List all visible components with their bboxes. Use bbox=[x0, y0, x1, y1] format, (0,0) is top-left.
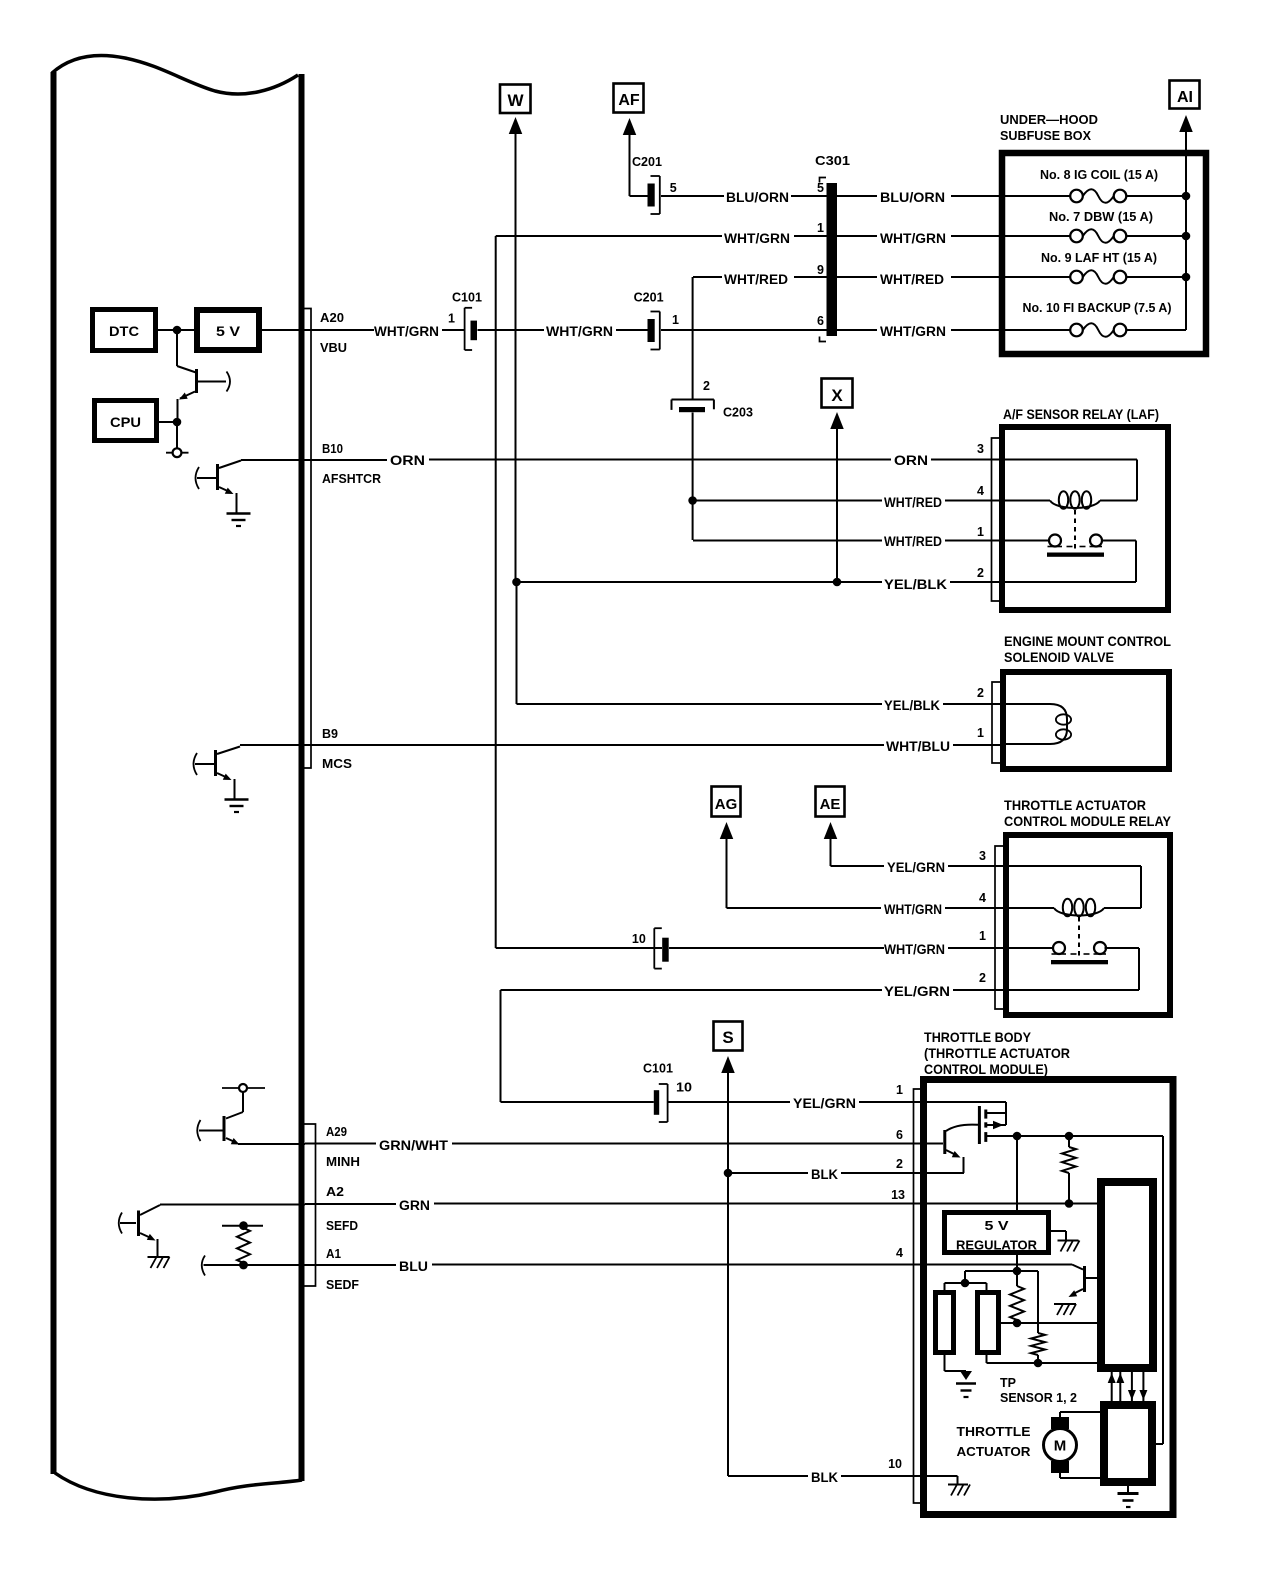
resistor R2 (gate pull) bbox=[1068, 1136, 1070, 1147]
wire WHT/RED row pin9 (to C301 and fuse box) bbox=[693, 276, 722, 278]
wire A1 internal with bracket bbox=[202, 1256, 205, 1276]
node source rail 2 bbox=[1065, 1132, 1074, 1141]
connector arrow box X bbox=[822, 379, 853, 408]
svg-text:ENGINE MOUNT CONTROL: ENGINE MOUNT CONTROL bbox=[1004, 633, 1171, 649]
throttle relay plunger dashed link bbox=[1078, 917, 1080, 957]
connector arrow box AG bbox=[712, 787, 741, 817]
wire 5V regulator feed bbox=[1016, 1136, 1018, 1210]
svg-text:5 V: 5 V bbox=[216, 323, 241, 339]
wire WHT/GRN row pin1 (vertical feed to C301 and fuse box) bbox=[496, 235, 722, 237]
engine mount solenoid box bbox=[1003, 672, 1169, 769]
svg-text:6: 6 bbox=[896, 1128, 903, 1142]
connector arrow box AE bbox=[816, 787, 845, 817]
resistor R1 on SEDF line bbox=[222, 1225, 263, 1227]
svg-text:DTC: DTC bbox=[109, 323, 139, 339]
svg-text:MCS: MCS bbox=[322, 757, 352, 771]
wire YEL/GRN row (AE to throttle relay pin3) bbox=[831, 865, 885, 867]
svg-text:C201: C201 bbox=[634, 291, 664, 305]
svg-text:S: S bbox=[722, 1028, 733, 1047]
svg-text:1: 1 bbox=[977, 726, 984, 740]
svg-text:4: 4 bbox=[977, 484, 984, 498]
wire WHT/RED row (to relay pin1) bbox=[693, 540, 882, 542]
svg-text:10: 10 bbox=[888, 1457, 902, 1471]
svg-text:WHT/GRN: WHT/GRN bbox=[880, 324, 946, 339]
wire motor bottom to drive block bbox=[1059, 1473, 1061, 1478]
svg-text:CPU: CPU bbox=[110, 414, 141, 430]
svg-text:WHT/GRN: WHT/GRN bbox=[884, 942, 945, 957]
wire internal 5V rail vertical bbox=[176, 330, 178, 366]
wire CPU to rail bbox=[159, 421, 177, 423]
fuse F2 No.7 DBW bbox=[1005, 235, 1070, 237]
5V REGULATOR box bbox=[945, 1213, 1049, 1253]
svg-text:2: 2 bbox=[979, 971, 986, 985]
wire BLU/ORN row (C201 to C301 to fuse box) bbox=[661, 195, 724, 197]
ECM/PCM module outline (torn-edge box) bbox=[51, 72, 57, 1474]
svg-text:YEL/BLK: YEL/BLK bbox=[884, 698, 940, 713]
ECM connector bracket (A20/B10/B9) bbox=[303, 309, 311, 769]
svg-text:13: 13 bbox=[891, 1188, 905, 1202]
wire motor top to drive block bbox=[1059, 1412, 1061, 1417]
svg-text:A2: A2 bbox=[326, 1185, 344, 1199]
svg-text:No. 10 FI BACKUP (7.5 A): No. 10 FI BACKUP (7.5 A) bbox=[1023, 301, 1172, 315]
wire ORN row (B10 to A/F sensor relay pin3) bbox=[429, 459, 891, 461]
wire AE vertical bbox=[830, 838, 832, 866]
CPU box bbox=[95, 401, 157, 441]
connector arrow box AF bbox=[614, 84, 644, 113]
wire YEL/BLK row (to engine mount solenoid pin2) bbox=[517, 703, 883, 705]
transistor Q4 (MINH driver) bbox=[222, 1087, 265, 1089]
svg-text:A20: A20 bbox=[320, 311, 344, 325]
svg-text:C203: C203 bbox=[723, 406, 753, 420]
connector arrow box W bbox=[500, 85, 531, 114]
wire YEL/GRN row (C101 to throttle body pin1) bbox=[501, 1101, 654, 1103]
wire GRN/WHT row (A28 to throttle body pin6) bbox=[305, 1143, 376, 1145]
amplifier block (tall) bbox=[1101, 1182, 1153, 1368]
throttle relay contacts bbox=[1053, 942, 1065, 954]
throttle relay connector bracket bbox=[995, 846, 1003, 1009]
svg-text:ORN: ORN bbox=[894, 453, 928, 468]
wire AG vertical bbox=[726, 838, 728, 908]
svg-text:WHT/RED: WHT/RED bbox=[724, 272, 788, 287]
svg-text:M: M bbox=[1054, 1438, 1067, 1455]
wire DTC to 5V bbox=[158, 329, 194, 331]
ground below motor drive block bbox=[1127, 1486, 1129, 1493]
regulator ground bbox=[1049, 1230, 1066, 1232]
engine mount solenoid coil bbox=[1003, 704, 1067, 744]
svg-text:AE: AE bbox=[820, 796, 841, 813]
svg-text:BLU/ORN: BLU/ORN bbox=[726, 190, 789, 205]
throttle body pin10 internal ground bbox=[957, 1476, 959, 1484]
svg-text:5: 5 bbox=[817, 181, 824, 195]
wire regulator output to R4 bbox=[1017, 1270, 1038, 1272]
svg-text:A1: A1 bbox=[326, 1247, 341, 1261]
wire Q6 emitter to pin2 BLK bbox=[930, 1172, 964, 1174]
svg-text:CONTROL MODULE): CONTROL MODULE) bbox=[924, 1061, 1048, 1077]
svg-text:YEL/GRN: YEL/GRN bbox=[793, 1096, 856, 1111]
svg-text:SENSOR 1, 2: SENSOR 1, 2 bbox=[1000, 1390, 1077, 1405]
connector C201 pin 1 (A20 row) bbox=[648, 319, 655, 342]
node: CPU junction bbox=[173, 418, 182, 427]
throttle relay internal wiring top bbox=[1009, 865, 1141, 867]
svg-text:X: X bbox=[831, 386, 843, 405]
TP sensor ground bbox=[944, 1352, 946, 1371]
svg-text:1: 1 bbox=[817, 221, 824, 235]
throttle relay coil bbox=[1009, 907, 1054, 909]
svg-text:4: 4 bbox=[896, 1246, 903, 1260]
wire 5V box to ECM edge (A20) bbox=[262, 329, 374, 331]
A/F relay connector bracket bbox=[992, 438, 1000, 601]
svg-text:AI: AI bbox=[1177, 89, 1193, 106]
node: DTC/5V junction bbox=[173, 326, 182, 335]
TP sensor 2 element bbox=[978, 1293, 999, 1353]
transistor Q1 (VBU driver) bbox=[177, 366, 196, 373]
node R4 output bbox=[1034, 1359, 1043, 1368]
transistor Q7 (pin4 buffer) bbox=[1072, 1265, 1083, 1270]
A/F relay contacts bbox=[1049, 535, 1061, 547]
svg-text:2: 2 bbox=[977, 686, 984, 700]
DTC box bbox=[93, 310, 156, 351]
wire TP sensor 1 output row bbox=[1001, 1322, 1101, 1324]
wire BLK row (S vertical bottom to throttle body pin10) bbox=[728, 1475, 808, 1477]
connector C301 (bar) bbox=[827, 183, 838, 336]
wire YEL/BLK row (W/X verticals to relay pin2) bbox=[517, 581, 883, 583]
svg-text:ACTUATOR: ACTUATOR bbox=[957, 1444, 1032, 1459]
svg-text:THROTTLE: THROTTLE bbox=[957, 1424, 1031, 1439]
svg-text:3: 3 bbox=[977, 442, 984, 456]
wire BLU row (A1 to throttle body pin4) bbox=[305, 1264, 396, 1266]
svg-text:WHT/GRN: WHT/GRN bbox=[724, 231, 790, 246]
ground below Q2 bbox=[227, 512, 251, 515]
node source rail 1 bbox=[1013, 1132, 1022, 1141]
fuse F3 No.9 LAF HT bbox=[1005, 276, 1070, 278]
wire YEL/GRN row (throttle relay pin2 down to C101) bbox=[501, 989, 883, 991]
test point open circle bbox=[166, 452, 189, 454]
A/F relay coil bbox=[1005, 500, 1050, 502]
svg-text:THROTTLE BODY: THROTTLE BODY bbox=[924, 1029, 1032, 1045]
svg-text:SUBFUSE BOX: SUBFUSE BOX bbox=[1000, 128, 1091, 143]
transistor Q2 (AFSHTCR driver) bbox=[196, 467, 200, 489]
svg-text:UNDER—HOOD: UNDER—HOOD bbox=[1000, 112, 1098, 127]
node YEL/BLK at W vertical bbox=[512, 578, 521, 587]
svg-text:B10: B10 bbox=[322, 442, 343, 456]
svg-text:BLU/ORN: BLU/ORN bbox=[880, 190, 945, 205]
svg-text:WHT/GRN: WHT/GRN bbox=[546, 324, 613, 339]
throttle relay box bbox=[1006, 835, 1170, 1015]
wire AI vertical into fuse box bbox=[1185, 131, 1187, 330]
wire BLK row (S vertical to throttle body pin2) bbox=[724, 1169, 733, 1178]
wire AF vertical to C201 bbox=[629, 134, 631, 196]
svg-text:WHT/GRN: WHT/GRN bbox=[880, 231, 946, 246]
throttle body pin1 internal wire bbox=[930, 1101, 1006, 1103]
svg-text:4: 4 bbox=[979, 891, 986, 905]
svg-text:6: 6 bbox=[817, 314, 824, 328]
svg-text:WHT/RED: WHT/RED bbox=[884, 495, 942, 510]
svg-text:1: 1 bbox=[448, 312, 455, 326]
svg-text:5 V: 5 V bbox=[985, 1218, 1009, 1233]
svg-text:B9: B9 bbox=[322, 727, 338, 741]
connector C201 pin 5 (BLU/ORN row) bbox=[648, 184, 655, 207]
svg-text:WHT/GRN: WHT/GRN bbox=[884, 902, 942, 917]
connector C101 pin 10 (relay feed) bbox=[653, 928, 655, 968]
fuse F1 No.8 IG COIL bbox=[1005, 195, 1070, 197]
wire GRN row (A2 to throttle body pin13) bbox=[305, 1203, 396, 1205]
wire W vertical bbox=[515, 133, 517, 583]
regulator output bbox=[1016, 1255, 1018, 1271]
svg-text:No. 8 IG COIL (15 A): No. 8 IG COIL (15 A) bbox=[1040, 168, 1158, 182]
svg-text:BLK: BLK bbox=[811, 1167, 838, 1182]
svg-text:YEL/GRN: YEL/GRN bbox=[884, 984, 950, 999]
svg-text:2: 2 bbox=[977, 566, 984, 580]
svg-text:1: 1 bbox=[977, 525, 984, 539]
svg-text:MINH: MINH bbox=[326, 1155, 360, 1169]
svg-text:10: 10 bbox=[676, 1081, 692, 1095]
connector C101 pin 1 (A20 row) bbox=[464, 308, 466, 350]
wire WHT/BLU row (B9 to engine mount solenoid pin1) bbox=[240, 744, 884, 746]
svg-text:AFSHTCR: AFSHTCR bbox=[322, 472, 381, 486]
svg-text:SEDF: SEDF bbox=[326, 1278, 359, 1292]
5V box bbox=[197, 310, 259, 350]
ground below Q5 (chassis) bbox=[148, 1256, 170, 1258]
svg-text:1: 1 bbox=[979, 929, 986, 943]
svg-text:2: 2 bbox=[703, 379, 710, 393]
connector C101 pin 10 (throttle body feed) bbox=[654, 1090, 659, 1115]
wire W vertical lower segment to engine mount row bbox=[516, 582, 518, 704]
engine mount connector bracket bbox=[992, 682, 1000, 763]
svg-text:10: 10 bbox=[632, 932, 646, 946]
fuse F4 No.10 FI BACKUP bbox=[1005, 329, 1070, 331]
node R2 to pin13 row bbox=[1065, 1199, 1074, 1208]
svg-text:GRN/WHT: GRN/WHT bbox=[379, 1138, 449, 1153]
svg-text:A29: A29 bbox=[326, 1125, 347, 1139]
svg-text:C201: C201 bbox=[632, 155, 662, 169]
svg-text:ORN: ORN bbox=[390, 453, 425, 468]
transistor Q6 (gate driver) bbox=[943, 1130, 946, 1154]
svg-text:W: W bbox=[507, 91, 524, 110]
wire S vertical (BLK) bbox=[727, 1072, 729, 1476]
svg-text:CONTROL MODULE RELAY: CONTROL MODULE RELAY bbox=[1004, 813, 1172, 829]
svg-text:REGULATOR: REGULATOR bbox=[956, 1238, 1038, 1253]
throttle body connector bracket bbox=[914, 1089, 921, 1503]
wire WHT/GRN row (AG to throttle relay pin4) bbox=[727, 907, 882, 909]
A/F relay plunger dashed link bbox=[1074, 510, 1076, 551]
connector arrow box AI bbox=[1170, 81, 1200, 109]
throttle body box bbox=[924, 1080, 1174, 1515]
fuse box outline bbox=[1002, 153, 1206, 354]
motor M1 bbox=[1051, 1417, 1069, 1429]
wire Q4 emitter to A28 pin bbox=[238, 1143, 305, 1145]
motor drive block bbox=[1104, 1405, 1152, 1482]
wire rail down right side to motor block bbox=[1162, 1136, 1164, 1444]
svg-text:5: 5 bbox=[670, 181, 677, 195]
svg-text:VBU: VBU bbox=[320, 341, 347, 355]
wire TP sensor 2 output row bbox=[987, 1362, 1102, 1364]
wire regulator output to TP sensors bbox=[965, 1270, 1017, 1272]
svg-text:2: 2 bbox=[896, 1157, 903, 1171]
transistor Q3 (MCS driver) bbox=[194, 753, 198, 775]
node YEL/BLK at X vertical bbox=[833, 578, 842, 587]
svg-text:(THROTTLE ACTUATOR: (THROTTLE ACTUATOR bbox=[924, 1045, 1070, 1061]
connector C203 pin 2 bbox=[692, 277, 694, 399]
node TP sensor supply bbox=[961, 1279, 970, 1288]
ground below Q7 (chassis) bbox=[1054, 1303, 1076, 1305]
ECM connector bracket (A28/A2/A1) bbox=[303, 1124, 316, 1286]
svg-text:SEFD: SEFD bbox=[326, 1219, 358, 1233]
A/F relay internal wiring top bbox=[1005, 459, 1137, 461]
svg-text:1: 1 bbox=[672, 313, 679, 327]
wire WHT/GRN A20 row (to C101, C201, C301 pin6, fuse box) bbox=[442, 329, 465, 331]
resistor R3 (TP divider) bbox=[1016, 1271, 1018, 1286]
svg-text:AF: AF bbox=[618, 92, 640, 109]
connector arrow box S bbox=[714, 1022, 743, 1051]
svg-text:A/F SENSOR RELAY (LAF): A/F SENSOR RELAY (LAF) bbox=[1003, 406, 1159, 422]
svg-text:YEL/GRN: YEL/GRN bbox=[887, 860, 945, 875]
wire X vertical bbox=[836, 428, 838, 582]
ground below Q3 bbox=[225, 798, 249, 801]
wire Q2 collector to B10 pin bbox=[241, 459, 387, 461]
node regulator output bbox=[1013, 1267, 1022, 1276]
svg-text:WHT/BLU: WHT/BLU bbox=[886, 739, 950, 754]
svg-text:BLK: BLK bbox=[811, 1470, 838, 1485]
svg-text:3: 3 bbox=[979, 849, 986, 863]
svg-text:TP: TP bbox=[1000, 1375, 1016, 1390]
wire WHT/RED row (C203 to relay pin4) bbox=[693, 500, 882, 502]
wire WHT/GRN row (C301 feed to throttle relay pin1 via connector 10) bbox=[496, 947, 662, 949]
svg-text:No. 7 DBW (15 A): No. 7 DBW (15 A) bbox=[1049, 210, 1153, 224]
svg-text:C101: C101 bbox=[452, 291, 482, 305]
signal arrows between blocks bbox=[1111, 1372, 1113, 1401]
wire MOSFET source rail bbox=[986, 1135, 1163, 1137]
resistor R4 (TP divider lower) bbox=[1031, 1333, 1045, 1355]
svg-text:BLU: BLU bbox=[399, 1259, 428, 1274]
svg-text:C101: C101 bbox=[643, 1062, 673, 1076]
svg-text:9: 9 bbox=[817, 263, 824, 277]
svg-text:No. 9 LAF HT (15 A): No. 9 LAF HT (15 A) bbox=[1041, 251, 1157, 265]
svg-text:C301: C301 bbox=[815, 154, 850, 168]
transistor Q5 (SEFD driver) bbox=[119, 1213, 122, 1234]
node R3 output bbox=[1013, 1319, 1022, 1328]
svg-text:SOLENOID VALVE: SOLENOID VALVE bbox=[1004, 649, 1114, 665]
svg-text:THROTTLE ACTUATOR: THROTTLE ACTUATOR bbox=[1004, 797, 1146, 813]
svg-text:WHT/RED: WHT/RED bbox=[884, 534, 942, 549]
svg-text:WHT/GRN: WHT/GRN bbox=[374, 324, 439, 339]
A/F sensor relay box bbox=[1002, 427, 1168, 610]
svg-text:AG: AG bbox=[715, 796, 738, 813]
TP sensor 1 element bbox=[936, 1293, 954, 1353]
svg-text:1: 1 bbox=[896, 1083, 903, 1097]
node on WHT/RED wire at C203 bbox=[688, 496, 697, 505]
wire A2 internal from Q5 bbox=[160, 1204, 305, 1206]
MOSFET Q8 power switch bbox=[978, 1106, 981, 1144]
svg-text:WHT/RED: WHT/RED bbox=[880, 272, 944, 287]
svg-text:YEL/BLK: YEL/BLK bbox=[884, 577, 947, 592]
svg-text:GRN: GRN bbox=[399, 1198, 430, 1213]
